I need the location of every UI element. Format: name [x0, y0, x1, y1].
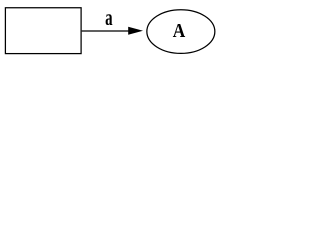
- svg-text:a: a: [105, 6, 113, 31]
- svg-text:A: A: [173, 20, 186, 43]
